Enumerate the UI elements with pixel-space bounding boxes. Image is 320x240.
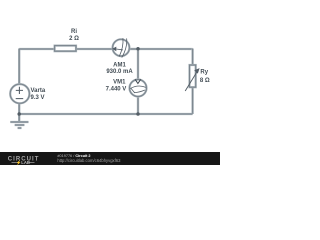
node A (top junction) bbox=[136, 47, 140, 51]
wire right rail upper bbox=[191, 49, 193, 66]
resistor Ri body bbox=[55, 46, 76, 52]
svg-text:Varta: Varta bbox=[31, 88, 46, 94]
svg-text:VM1: VM1 bbox=[113, 80, 126, 86]
svg-text:7.440 V: 7.440 V bbox=[106, 86, 127, 92]
ammeter AM1 bbox=[106, 38, 133, 75]
ammeter AM1 body circle bbox=[113, 39, 130, 56]
svg-text:Ry: Ry bbox=[200, 70, 208, 76]
voltmeter VM1 body circle bbox=[130, 80, 147, 97]
voltmeter VM1 dial arcs and needle bbox=[130, 86, 146, 89]
wire top-left corner run (to Ri) bbox=[19, 49, 54, 85]
svg-text:9.3 V: 9.3 V bbox=[31, 95, 45, 101]
ground bbox=[10, 122, 28, 128]
node B (VM1 bottom junction) bbox=[136, 112, 140, 116]
rheostat Ry body bbox=[190, 65, 196, 87]
voltmeter VM1 bbox=[106, 79, 147, 96]
plus terminal mark bbox=[16, 87, 23, 94]
voltage source Varta body circle bbox=[10, 84, 29, 103]
resistor Ri bbox=[55, 29, 79, 51]
CircuitLab logo bbox=[8, 156, 40, 166]
voltmeter VM1 V glyph bbox=[135, 79, 141, 83]
wire right rail lower bbox=[191, 87, 193, 114]
svg-text:AM1: AM1 bbox=[113, 62, 126, 68]
wire VM1 branch upper bbox=[137, 49, 139, 80]
svg-text:Ri: Ri bbox=[71, 29, 77, 35]
minus terminal mark bbox=[16, 98, 24, 100]
wire AM1 to node A bbox=[130, 48, 139, 50]
ammeter AM1 arrow glyph bbox=[116, 48, 123, 51]
ammeter AM1 meter arcs bbox=[119, 38, 123, 56]
wire ground stem bbox=[18, 114, 20, 122]
svg-text:⚡LAB: ⚡LAB bbox=[16, 160, 30, 165]
svg-text:8 Ω: 8 Ω bbox=[200, 78, 210, 84]
voltage source Varta bbox=[10, 84, 46, 103]
watermark bar bbox=[0, 152, 220, 165]
svg-text:http://circuitlab.com/c64bhyvg: http://circuitlab.com/c64bhyvgxf63 bbox=[57, 158, 121, 163]
wire left rail lower bbox=[18, 103, 20, 114]
wire node A to top-right corner bbox=[138, 48, 193, 50]
svg-text:2 Ω: 2 Ω bbox=[69, 36, 79, 42]
wire VM1 branch lower bbox=[137, 97, 139, 115]
node C (source bottom junction) bbox=[17, 112, 21, 116]
rheostat Ry adjustment arrow bbox=[185, 71, 197, 91]
rheostat Ry bbox=[185, 65, 210, 91]
wire Ri to AM1 bbox=[76, 48, 113, 50]
wire bottom rail bbox=[19, 113, 192, 115]
svg-text:930.0 mA: 930.0 mA bbox=[106, 69, 133, 75]
